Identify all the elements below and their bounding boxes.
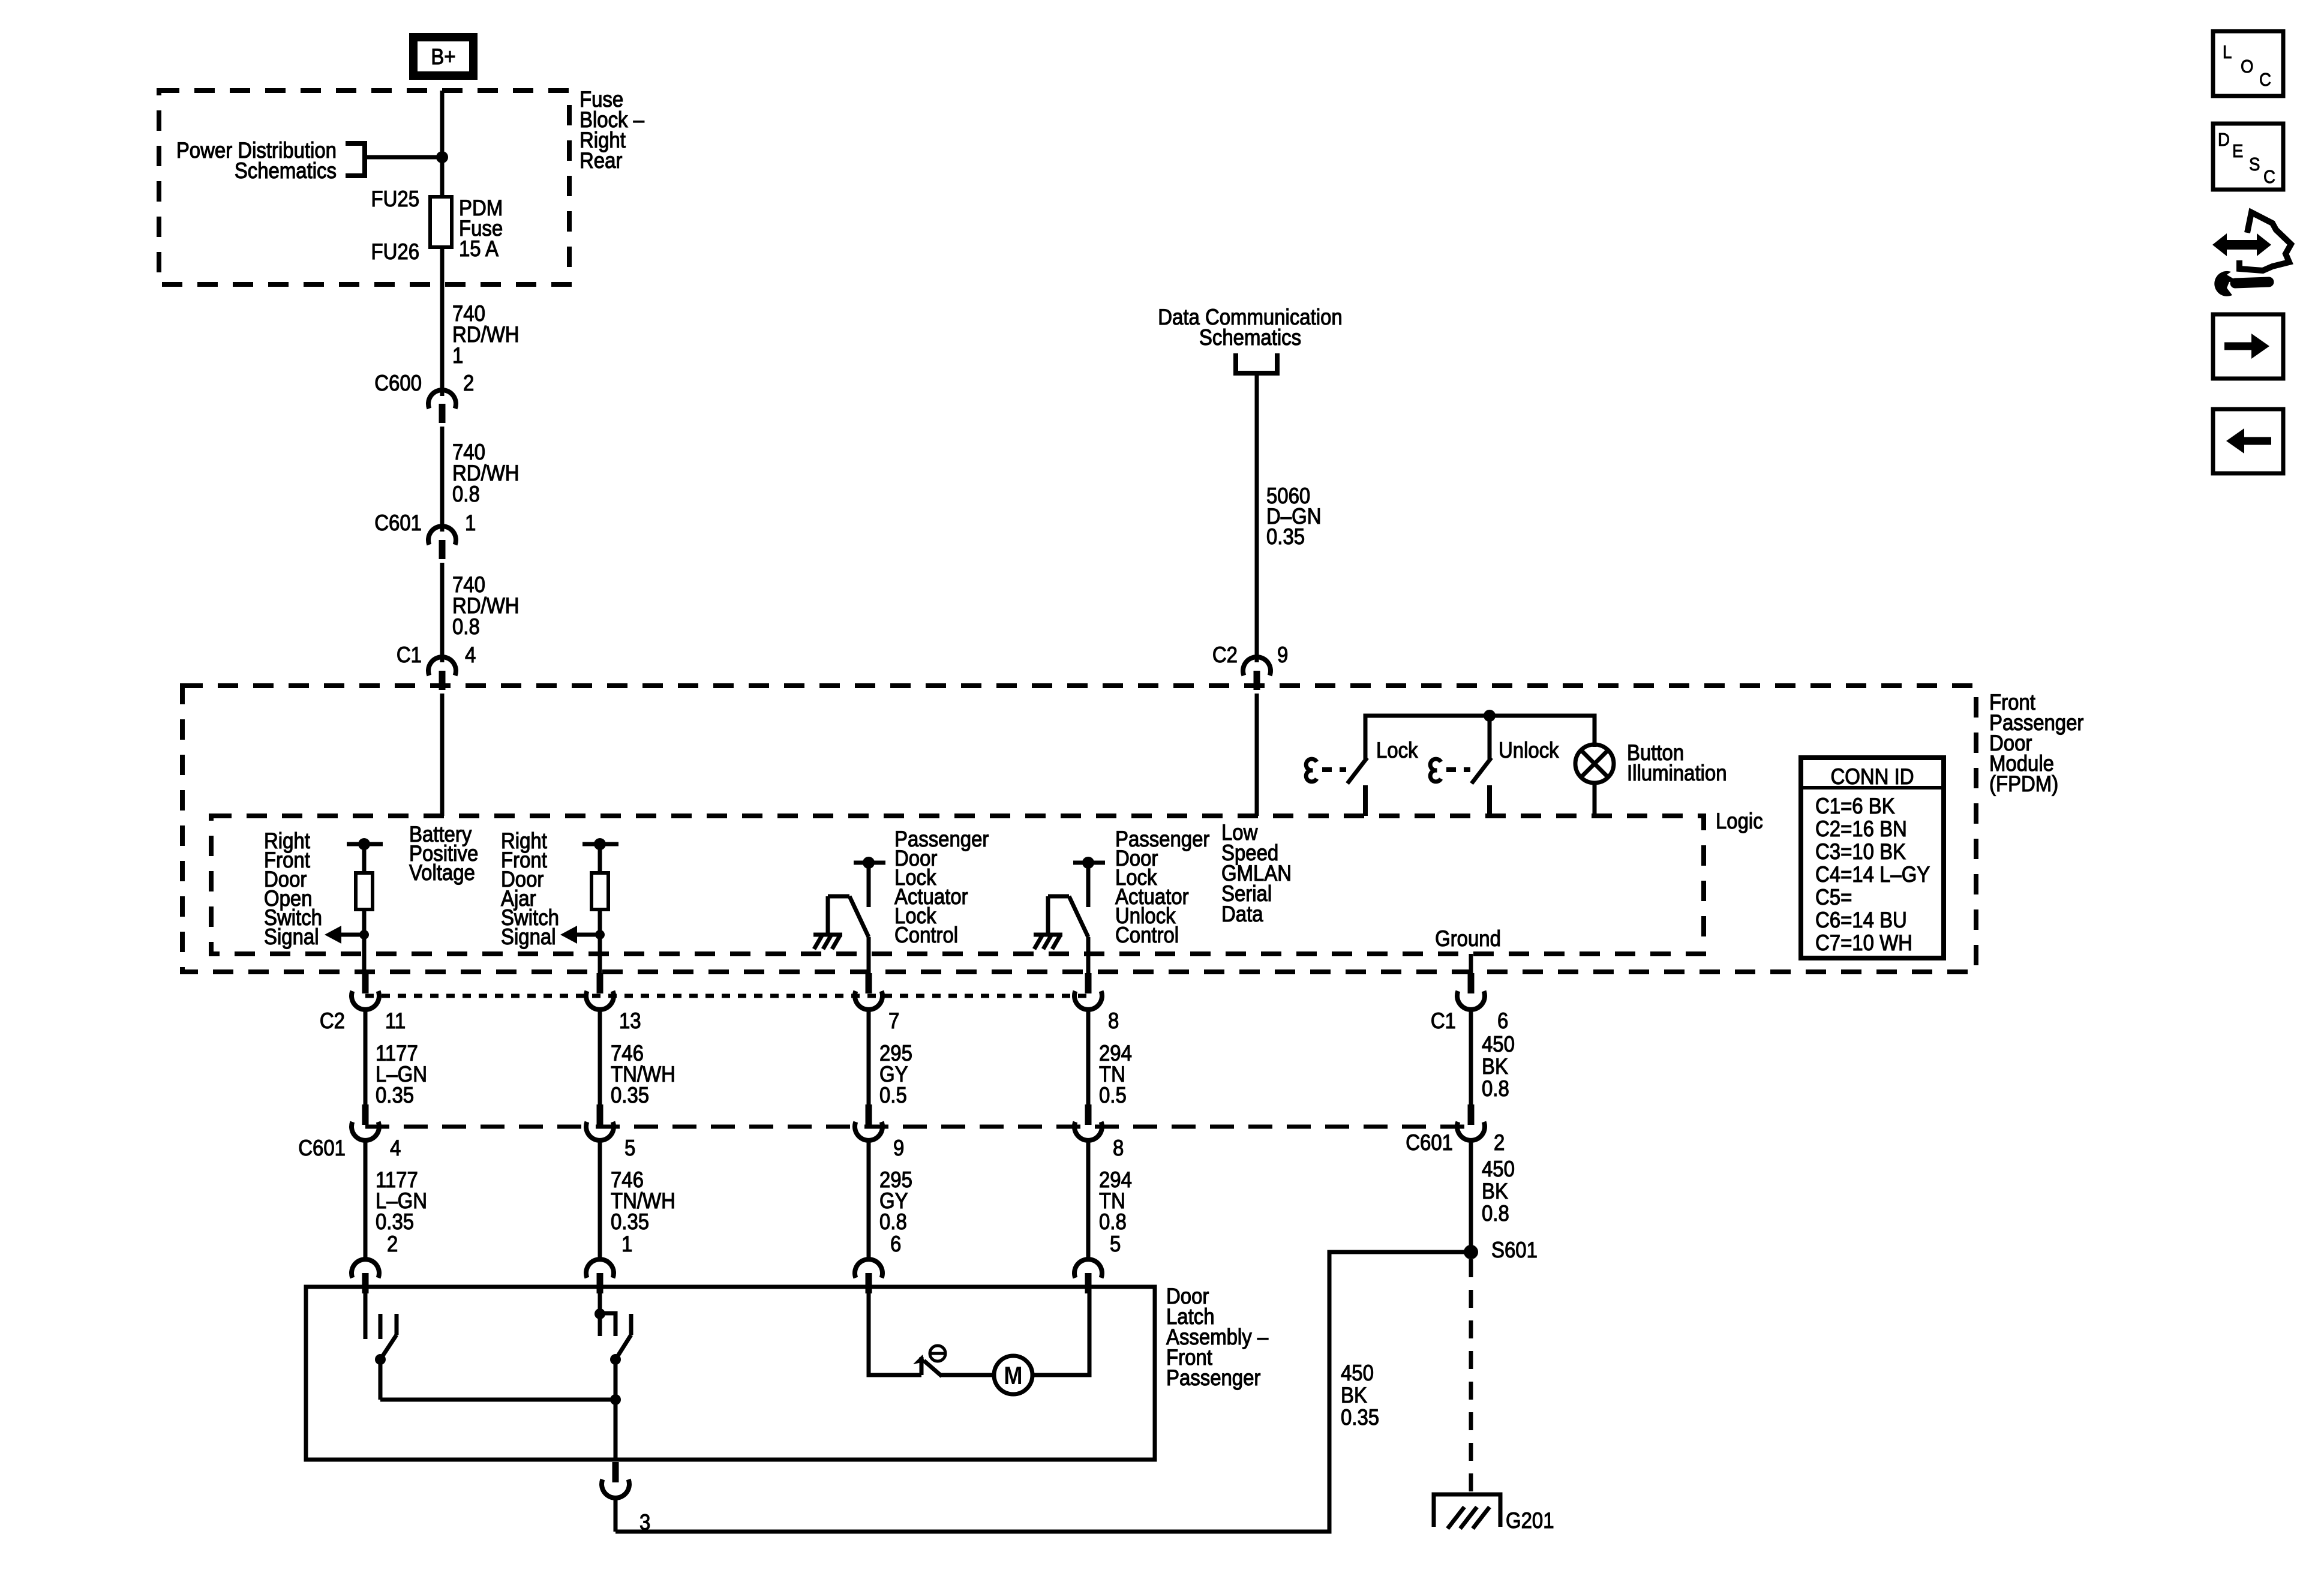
svg-text:Control: Control [1115,923,1179,947]
mechanical link unlock [1430,759,1470,782]
svg-text:Schematics: Schematics [1199,325,1301,350]
svg-text:0.8: 0.8 [1482,1076,1509,1101]
wire bracket to junction [365,155,442,160]
svg-text:C601: C601 [1406,1130,1453,1155]
wire 450 BK 0.8 lower [1469,1140,1473,1246]
wire latch switch link [380,1398,615,1402]
connector C601 pin 2 ground [1406,1104,1505,1155]
driver Q2 lock actuator unlock control [1048,857,1105,937]
svg-text:C7=10 WH: C7=10 WH [1815,930,1912,955]
wire 1177 L-GN 0.35 lower [364,1140,368,1259]
mechanical link lock [1306,759,1346,782]
wire 295 GY 0.8 [867,1140,871,1259]
svg-text:0.8: 0.8 [1482,1201,1509,1226]
connector C1 pin 6 ground [1431,973,1508,1033]
connector C2 pin 13 [586,973,641,1033]
svg-text:Lock: Lock [1376,738,1418,763]
svg-text:BK: BK [1482,1054,1508,1079]
svg-text:G201: G201 [1506,1508,1554,1533]
battery rail bar 1 with junction [347,838,383,873]
driver Q1 lock actuator lock control [828,857,885,937]
battery rail bar 2 with junction [582,838,618,873]
connector C2 pin 11 [320,973,406,1033]
svg-text:7: 7 [888,1008,899,1033]
switch Lock (door lock button) [1347,716,1490,816]
svg-text:Unlock: Unlock [1499,738,1559,763]
connector C601 pin 9 [855,1104,904,1160]
svg-text:FU26: FU26 [371,239,419,264]
icon arrow right [2213,314,2283,379]
connector C601 pin 4 [298,1104,401,1160]
splice S601 [1464,1245,1478,1259]
wire Q2 output [1086,937,1091,974]
connector C2 pin 9 (FPDM) [1212,643,1288,690]
wire 746 TN/WH 0.35 lower [598,1140,602,1259]
svg-text:C: C [2259,70,2271,91]
connector C601 pin 8 [1074,1104,1124,1160]
connector latch pin 6 [855,1232,901,1293]
FPDM outer dashed box [182,686,1976,972]
conn id table [1801,758,1944,958]
wire GMLAN into FPDM logic [1255,694,1259,816]
svg-text:6: 6 [1497,1008,1508,1033]
svg-text:E: E [2232,141,2243,162]
svg-text:L: L [2223,42,2232,63]
svg-text:8: 8 [1108,1008,1119,1033]
svg-text:0.35: 0.35 [611,1209,649,1234]
svg-text:C2: C2 [1212,643,1238,667]
icon arrow left [2213,409,2283,473]
svg-text:Signal: Signal [264,924,319,949]
svg-text:FU25: FU25 [371,187,419,211]
wire lock/unlock top bus [1365,716,1595,759]
connector latch pin 5 [1074,1232,1121,1293]
svg-text:1: 1 [621,1232,632,1256]
wire switch to motor [939,1373,994,1377]
switch motor (latch) [913,1355,942,1376]
connector C1 pin 4 (FPDM) [397,643,476,690]
svg-text:C2: C2 [320,1008,345,1033]
wire C600 to C601 740 RD/WH 0.8 [440,427,445,532]
wire 1177 L-GN 0.35 upper [364,1010,368,1104]
svg-text:Signal: Signal [501,924,556,949]
connector C2 pin 7 [855,973,899,1033]
icon DESC [2213,124,2283,190]
svg-text:S: S [2249,154,2260,175]
wire dashed to ground G201 [1469,1259,1473,1494]
svg-text:Voltage: Voltage [409,860,475,885]
connector line C601 dashed [365,1125,1471,1129]
wire R1 to connector [362,909,367,974]
svg-text:0.5: 0.5 [1099,1083,1127,1107]
svg-text:450: 450 [1341,1361,1374,1385]
svg-text:C4=14 L–GY: C4=14 L–GY [1815,862,1930,887]
svg-text:BK: BK [1482,1179,1508,1203]
svg-text:Rear: Rear [580,148,623,173]
logic inner dashed box [211,816,1704,954]
connector latch pin 3 [602,1462,650,1535]
connector C600 pin 2 [374,371,474,423]
svg-text:0.8: 0.8 [452,614,480,639]
svg-text:9: 9 [1277,643,1288,667]
svg-text:2: 2 [387,1232,398,1256]
wire 294 TN 0.5 [1086,1010,1091,1104]
svg-text:Control: Control [894,923,958,947]
svg-text:C3=10 BK: C3=10 BK [1815,839,1906,864]
wire latch motor left lead [869,1293,921,1375]
signal arrow door open switch signal [325,926,369,944]
svg-text:C2=16 BN: C2=16 BN [1815,816,1907,841]
svg-text:0.5: 0.5 [879,1083,907,1107]
svg-text:13: 13 [619,1008,641,1033]
motor M door lock actuator [994,1356,1032,1394]
svg-text:Data: Data [1221,902,1263,926]
connector line C2 dotted [365,994,1088,998]
svg-text:0.35: 0.35 [1266,524,1305,549]
svg-text:2: 2 [463,371,474,395]
svg-text:9: 9 [893,1136,904,1160]
svg-text:M: M [1004,1362,1022,1389]
bracket to Data Communication Schematics [1236,353,1277,373]
icon LOC [2213,31,2283,96]
lamp Button Illumination [1575,745,1614,816]
wire 746 TN/WH 0.35 upper [598,1010,602,1104]
wire fuse to C600 [440,247,445,396]
connector latch pin 1 [586,1232,632,1293]
door latch assembly box [306,1287,1155,1460]
wire B+ feed upper [440,91,445,197]
svg-text:Passenger: Passenger [1166,1365,1261,1390]
resistor R1 door open switch pull-up [356,873,373,909]
resistor R2 door ajar switch pull-up [591,873,608,909]
svg-text:C1=6 BK: C1=6 BK [1815,794,1895,818]
svg-text:0.35: 0.35 [376,1083,414,1107]
svg-text:4: 4 [390,1136,401,1160]
svg-text:B+: B+ [431,44,455,69]
svg-text:450: 450 [1482,1157,1515,1181]
svg-text:CONN ID: CONN ID [1830,764,1914,789]
svg-text:15 A: 15 A [459,236,499,261]
svg-text:C5=: C5= [1815,885,1852,909]
signal arrow door ajar switch signal [560,926,605,944]
wire 295 GY 0.5 [867,1010,871,1104]
svg-text:0.35: 0.35 [611,1083,649,1107]
svg-text:C601: C601 [298,1136,346,1160]
svg-text:C1: C1 [397,643,422,667]
svg-text:0.35: 0.35 [376,1209,414,1234]
ground G201 [1434,1494,1500,1529]
svg-text:5: 5 [1110,1232,1121,1256]
wire 450 BK 0.8 upper [1469,1010,1473,1104]
svg-text:11: 11 [385,1008,406,1033]
svg-text:C600: C600 [374,371,422,395]
ground chassis driver Q1 [813,935,842,949]
wire 294 TN 0.8 [1086,1140,1091,1259]
connector C601 pin 5 [586,1104,635,1160]
fuse block dashed box (Fuse Block - Right Rear) [159,91,569,284]
wire C601 to C1 740 RD/WH 0.8 [440,563,445,662]
svg-text:1: 1 [465,511,476,535]
svg-text:C1: C1 [1431,1008,1456,1033]
switch door ajar (latch) [594,1293,631,1460]
svg-text:C6=14 BU: C6=14 BU [1815,908,1907,932]
svg-text:0.8: 0.8 [1099,1209,1127,1234]
svg-text:0.8: 0.8 [452,482,480,506]
svg-text:0.8: 0.8 [879,1209,907,1234]
junction dot latch link [610,1394,621,1405]
power symbol B+ [413,37,473,76]
svg-text:(FPDM): (FPDM) [1989,772,2058,796]
svg-text:1: 1 [452,343,463,368]
svg-text:Logic: Logic [1716,809,1763,833]
wire GMLAN serial data 5060 D-GN 0.35 [1255,373,1259,662]
svg-text:Ground: Ground [1435,926,1501,951]
svg-text:S601: S601 [1491,1238,1538,1262]
wire ground lead inside FPDM [1469,954,1473,974]
bracket to Power Distribution Schematics [346,143,365,176]
svg-text:2: 2 [1494,1130,1505,1155]
switch Unlock (door unlock button) [1472,758,1491,816]
wire motor right lead [1032,1293,1089,1375]
svg-text:5: 5 [624,1136,635,1160]
thermal element symbol [930,1346,945,1361]
connector C601 pin 1 [374,511,476,559]
junction dot unlock bus [1484,710,1496,722]
svg-text:O: O [2241,56,2253,77]
junction dot [436,151,448,163]
svg-text:8: 8 [1113,1136,1124,1160]
wire 450 BK 0.35 ground run [615,1252,1471,1532]
switch door open (latch) [365,1293,397,1400]
svg-text:6: 6 [890,1232,901,1256]
wire latch pin 3 down [614,1497,618,1532]
connector C2 pin 8 [1074,973,1119,1033]
ground chassis driver Q2 [1034,935,1062,949]
wire Q1 output [867,937,871,974]
wire battery feed into FPDM [440,694,445,816]
svg-text:450: 450 [1482,1032,1515,1056]
svg-text:Illumination: Illumination [1627,761,1727,785]
wire R2 to connector [598,909,602,974]
svg-text:C601: C601 [374,511,422,535]
svg-text:C: C [2263,167,2275,188]
svg-text:Schematics: Schematics [235,158,337,183]
svg-text:4: 4 [465,643,476,667]
connector latch pin 2 [352,1232,398,1293]
fuse FU25/FU26 PDM Fuse 15 A [430,197,452,247]
icon diagnostic car with wrench [2212,212,2291,296]
svg-text:0.35: 0.35 [1341,1405,1379,1430]
svg-text:BK: BK [1341,1383,1367,1407]
svg-text:D: D [2218,130,2230,151]
